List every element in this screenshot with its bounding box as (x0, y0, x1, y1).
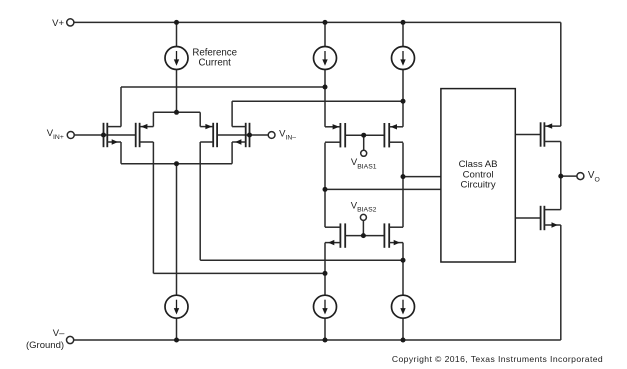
wire: Q3 drain across to node at x=403 (200, 259, 403, 261)
wire: Q3 gate to VIN- terminal (217, 134, 268, 136)
transistor Q4 (NMOS input, VIN- side) (232, 123, 249, 147)
junction: V- rail / bottom source 3 (401, 338, 406, 343)
wire: VBIAS2 stub (362, 220, 364, 235)
wire: top cascode gate bus (345, 134, 384, 136)
junction: Q3 drain joins x=403 column (401, 258, 406, 263)
current source I4 (bottom left, NMOS pair tail) (165, 295, 188, 318)
wire: VBIAS1 stub (363, 136, 365, 150)
wire: Class AB box to output NMOS gate (515, 217, 540, 219)
wire: NMOS pair tail bus (121, 163, 232, 165)
transistor Q6 (top cascode right, VBIAS1) (384, 123, 403, 147)
wire: Q1 source down (120, 142, 122, 164)
junction: PMOS pair tail node (174, 110, 179, 115)
wire: top cascode left to bottom cascode left (324, 143, 326, 228)
wire: Q4 source down (231, 142, 233, 164)
junction: V+ rail / current source 3 (401, 20, 406, 25)
transistor Q1 (NMOS input, VIN+ side) (104, 123, 122, 147)
wire: output-stage rise to V- rail (560, 225, 562, 340)
wire: Q2 drain down (152, 142, 154, 273)
terminal: VBIAS2 (360, 214, 366, 220)
wire: bottom cascode left down to bottom current source 2 (324, 243, 326, 296)
wire: VIN+ lead to Q1/Q2 gates (74, 134, 136, 136)
svg-text:(Ground): (Ground) (26, 340, 64, 351)
wire: bottom current source 1 to V- rail (176, 318, 178, 340)
wire: bottom cascode gate bus (345, 235, 384, 237)
wire: bottom current source 2 to V- rail (324, 318, 326, 340)
wire: Q2 source up to PMOS tail (152, 112, 154, 126)
current source I3 (top right) (392, 47, 415, 70)
wire: top current source 3 down to top cascode right (402, 70, 404, 127)
junction: VBIAS1 gate node (361, 133, 366, 138)
wire: node x=325 to Class AB box (lower) (325, 188, 441, 190)
wire: ref current source to PMOS-pair tail node (176, 70, 178, 113)
junction: x=325 column to Class AB box wire (323, 187, 328, 192)
current source I-REF (reference current, top left) (165, 47, 188, 70)
svg-text:Current: Current (199, 58, 232, 69)
wire: Q2 drain across to node at x=325 (153, 272, 325, 274)
junction: Q4 gate at VIN- wire (247, 133, 252, 138)
transistor Q3 (PMOS input, VIN- side) (200, 123, 217, 147)
block: Class AB Control Circuitry box (441, 89, 515, 262)
junction: V+ rail / ref current (174, 20, 179, 25)
terminal: VIN+ input (67, 132, 74, 139)
current source I5 (bottom middle) (314, 295, 337, 318)
junction: output node (558, 174, 563, 179)
junction: Q4 drain joins x=403 column (401, 99, 406, 104)
wire: output PMOS drain to output node to NMOS drain (560, 142, 562, 210)
wire: top current source 2 top lead (324, 22, 326, 46)
wire: top current source 3 top lead (402, 22, 404, 46)
junction: VBIAS2 gate node (361, 233, 366, 238)
current source I6 (bottom right) (392, 295, 415, 318)
wire: bottom current source 3 to V- rail (402, 318, 404, 340)
current source I2 (top middle) (314, 47, 337, 70)
wire: Q3 source up to PMOS tail (199, 112, 201, 126)
wire: NMOS tail down to bottom current source 1 (176, 164, 178, 296)
transistor Q9 (output PMOS) (541, 122, 561, 146)
wire: Class AB box to output PMOS gate (515, 134, 540, 136)
junction: V+ rail / current source 2 (323, 20, 328, 25)
wire: bottom cascode right down to bottom current source 3 (402, 243, 404, 296)
wire: Q4 drain up (231, 101, 233, 126)
svg-text:Copyright © 2016, Texas Instru: Copyright © 2016, Texas Instruments Inco… (392, 354, 603, 364)
wire: Q1 drain across to node at x=325 (121, 86, 325, 88)
wire: Q3 drain down (199, 142, 201, 260)
junction: NMOS pair tail node (174, 161, 179, 166)
wire: output-stage drop from V+ rail (560, 22, 562, 126)
junction: V- rail / bottom source 1 (174, 338, 179, 343)
wire: node x=403 to Class AB box (upper) (403, 176, 441, 178)
terminal: VO output (577, 173, 584, 180)
terminal: VBIAS1 (361, 150, 367, 156)
svg-text:V+: V+ (52, 18, 64, 29)
junction: Q1 gate at VIN+ wire (101, 133, 106, 138)
transistor Q5 (top cascode left, VBIAS1) (325, 123, 345, 147)
wire: V- bottom supply rail (74, 339, 561, 341)
wire: PMOS pair tail bus (153, 111, 200, 113)
transistor Q7 (bottom cascode left, VBIAS2) (325, 223, 345, 247)
transistor Q2 (PMOS input, VIN+ side) (136, 123, 154, 147)
wire: ref current source top lead (176, 22, 178, 46)
wire: top current source 2 down to top cascode left (324, 70, 326, 127)
wire: Q1 drain up (120, 87, 122, 127)
wire: V+ top supply rail (74, 21, 561, 23)
svg-text:V–: V– (53, 328, 65, 339)
junction: Q2 drain joins x=325 column (323, 271, 328, 276)
wire: output node to VO terminal (561, 175, 577, 177)
svg-text:Circuitry: Circuitry (461, 180, 496, 191)
transistor Q10 (output NMOS) (541, 206, 561, 230)
junction: x=403 column to Class AB box wire (401, 174, 406, 179)
terminal: V- (Ground) supply (67, 336, 74, 343)
wire: Q4 drain across to node at x=403 (232, 100, 403, 102)
terminal: V+ supply (67, 19, 74, 26)
junction: V- rail / bottom source 2 (323, 338, 328, 343)
transistor Q8 (bottom cascode right, VBIAS2) (384, 223, 403, 247)
terminal: VIN- input (268, 132, 275, 139)
junction: Q1 drain joins x=325 column (323, 85, 328, 90)
wire: top cascode right to bottom cascode right (402, 143, 404, 228)
